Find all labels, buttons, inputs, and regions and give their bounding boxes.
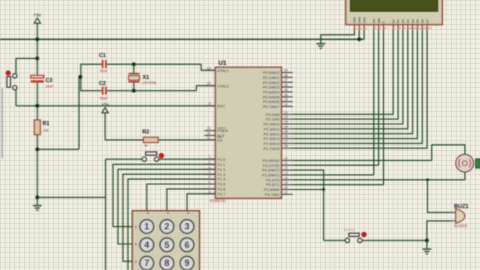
svg-text:P1.7: P1.7 [217,191,225,196]
svg-text:39: 39 [284,69,288,73]
svg-text:D2: D2 [401,19,405,23]
svg-text:9: 9 [184,258,189,268]
svg-text:9: 9 [209,102,211,106]
svg-text:33: 33 [284,98,288,102]
svg-text:19: 19 [207,66,211,70]
svg-text:XTAL1: XTAL1 [217,68,229,73]
svg-text:BUZZER: BUZZER [454,224,467,228]
svg-text:3: 3 [184,222,189,232]
svg-text:CRYSTAL: CRYSTAL [143,81,158,85]
svg-text:35: 35 [284,88,288,92]
svg-text:10: 10 [284,156,288,160]
svg-text:18: 18 [207,82,211,86]
svg-text:14: 14 [284,176,288,180]
svg-text:5: 5 [164,240,169,250]
svg-text:7: 7 [144,258,149,268]
svg-text:17: 17 [284,190,288,194]
svg-text:16: 16 [284,186,288,190]
svg-text:D5: D5 [416,19,420,23]
svg-text:C3: C3 [46,78,53,84]
svg-text:D6: D6 [421,19,425,23]
svg-text:VDD: VDD [357,16,361,23]
svg-text:38: 38 [284,73,288,77]
svg-text:29: 29 [207,127,211,131]
svg-text:RST: RST [217,103,225,108]
svg-text:34: 34 [284,93,288,97]
svg-text:VSS: VSS [353,17,357,23]
svg-text:36: 36 [284,83,288,87]
svg-text:2: 2 [209,160,211,164]
svg-text:10uF: 10uF [46,85,54,89]
svg-text:E: E [382,21,386,23]
svg-text:14: 14 [428,26,431,30]
svg-text:6: 6 [184,240,189,250]
svg-text:30pF: 30pF [100,69,108,73]
svg-text:X1: X1 [143,75,150,81]
svg-text:13: 13 [284,171,288,175]
svg-text:D3: D3 [406,19,410,23]
svg-text:B: B [135,243,137,247]
svg-text:C2: C2 [99,81,106,87]
svg-text:D1: D1 [396,19,400,23]
svg-text:RS: RS [372,19,376,23]
svg-text:RW: RW [377,18,381,23]
svg-text:31: 31 [207,136,211,140]
svg-text:12: 12 [418,26,421,30]
svg-text:+5v: +5v [34,13,42,18]
svg-text:3: 3 [209,165,211,169]
svg-text:6: 6 [209,180,211,184]
svg-text:27: 27 [284,139,288,143]
svg-text:10k: 10k [43,128,49,132]
svg-text:22: 22 [284,115,288,119]
svg-text:11: 11 [414,26,417,30]
svg-text:1: 1 [144,222,149,232]
svg-text:P2.7/A15: P2.7/A15 [263,146,279,151]
svg-text:12: 12 [284,166,288,170]
svg-text:30pF: 30pF [100,97,108,101]
svg-text:7: 7 [209,185,211,189]
svg-text:21: 21 [284,110,288,114]
svg-text:5: 5 [209,175,211,179]
svg-text:+5v: +5v [101,102,109,107]
svg-text:10: 10 [409,26,412,30]
svg-text:30: 30 [207,131,211,135]
svg-text:1: 1 [209,155,211,159]
svg-text:4: 4 [209,170,211,174]
svg-text:8: 8 [164,258,169,268]
svg-text:EA: EA [217,138,223,143]
svg-text:D0: D0 [391,19,395,23]
svg-text:15: 15 [284,181,288,185]
svg-text:R1: R1 [43,121,50,127]
svg-text:37: 37 [284,78,288,82]
svg-text:26: 26 [284,135,288,139]
svg-text:P3.7/RD: P3.7/RD [265,192,280,197]
svg-text:P0.7/AD7: P0.7/AD7 [263,104,280,109]
svg-text:2: 2 [164,222,169,232]
svg-text:D4: D4 [411,19,415,23]
svg-text:1k: 1k [144,144,148,148]
svg-text:24: 24 [284,125,288,129]
svg-text:D7: D7 [425,19,429,23]
svg-text:C1: C1 [99,53,106,59]
svg-text:11: 11 [284,161,288,165]
svg-text:32: 32 [284,102,288,106]
svg-text:28: 28 [284,144,288,148]
svg-text:25: 25 [284,130,288,134]
svg-text:8: 8 [209,190,211,194]
svg-text:R2: R2 [142,130,149,136]
svg-text:VEE: VEE [362,17,366,23]
svg-text:23: 23 [284,120,288,124]
svg-text:U1: U1 [219,60,227,67]
svg-text:4: 4 [144,240,149,250]
svg-text:13: 13 [423,26,426,30]
svg-text:BUTTON: BUTTON [344,228,355,232]
svg-text:AT89C51: AT89C51 [210,198,227,203]
svg-text:XTAL2: XTAL2 [217,83,229,88]
